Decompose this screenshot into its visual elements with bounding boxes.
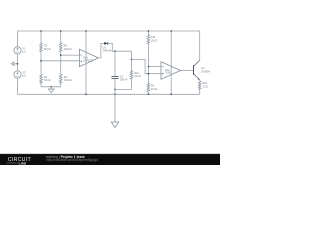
svg-text:LAB: LAB: [19, 161, 27, 165]
svg-text:1N4148: 1N4148: [103, 49, 112, 52]
resistor R3: [59, 43, 62, 53]
svg-text:100 Ω: 100 Ω: [134, 75, 141, 78]
wire to op-amp - input: [61, 54, 80, 56]
wire column3 top: [147, 31, 149, 35]
junction col3 bottom rail: [148, 94, 150, 96]
footer bar: [0, 154, 220, 165]
wire op-amp2 V+ stub: [170, 31, 172, 94]
svg-text:5 V: 5 V: [22, 75, 26, 78]
junction col3 plus cross: [148, 73, 150, 75]
junction divider ground: [50, 86, 52, 88]
wire left rail lower: [17, 78, 19, 94]
ground left: [11, 62, 17, 66]
junction col3 top rail: [148, 30, 150, 32]
wire column3 bottom: [147, 92, 149, 94]
wire diode cathode: [108, 43, 132, 51]
wire column1 bottom: [40, 83, 42, 87]
svg-text:http://circuitlab.com/c/58yr9m: http://circuitlab.com/c/58yr9mf3g4gd: [46, 158, 97, 162]
junction left ground tap: [17, 63, 19, 65]
resistor R4: [59, 74, 62, 83]
junction R12 top tap: [131, 59, 133, 61]
wire collector to top rail: [199, 31, 201, 60]
junction col1 top rail: [40, 30, 42, 32]
wire op-amp1 output: [98, 43, 104, 58]
wire to op-amp + input: [41, 60, 79, 62]
svg-text:5 V: 5 V: [22, 51, 26, 54]
svg-text:100 nF: 100 nF: [120, 79, 128, 82]
svg-text:OA2: OA2: [165, 69, 170, 72]
voltage source V1: [14, 47, 21, 54]
wire column1 top: [40, 31, 42, 43]
logo CircuitLab: [6, 157, 31, 165]
voltage source V2: [14, 71, 21, 78]
wire bottom rail: [18, 93, 200, 95]
junction OA2 V- bottom rail: [170, 94, 172, 96]
resistor R12: [130, 70, 133, 79]
resistor R14: [147, 35, 150, 44]
diode D1: [104, 42, 108, 45]
resistor R9: [147, 83, 150, 92]
resistor R2: [40, 74, 43, 83]
svg-text:50 kΩ: 50 kΩ: [44, 48, 51, 51]
svg-text:10 kΩ: 10 kΩ: [151, 88, 158, 91]
svg-text:100 Ω: 100 Ω: [151, 40, 158, 43]
op-amp OA2: [161, 62, 181, 79]
svg-text:LMP2231: LMP2231: [83, 60, 94, 62]
wire column2 mid: [60, 52, 62, 74]
wire to comparator - input: [148, 66, 161, 68]
wire diode node down: [131, 51, 133, 70]
wire column3 mid: [147, 44, 149, 83]
wire comparator + feed: [132, 59, 162, 73]
junction col1 tap: [40, 60, 42, 62]
wire emitter resistor to bottom rail: [199, 89, 201, 94]
junction C3 tap: [114, 50, 116, 52]
wire divider bottom connector: [41, 86, 61, 88]
junction ground stem bottom rail: [114, 94, 116, 96]
wire connector to R12: [115, 79, 132, 89]
wire emitter stub: [199, 80, 201, 81]
wire op-amp1 V+ stub: [85, 31, 87, 94]
transistor Q1: [194, 60, 200, 80]
junction C3-R12 connector: [114, 89, 116, 91]
wire left rail upper: [17, 31, 19, 47]
capacitor C3: [112, 76, 119, 78]
svg-text:100 kΩ: 100 kΩ: [64, 48, 72, 51]
wire C3 top stub: [114, 51, 116, 76]
svg-text:50 kΩ: 50 kΩ: [44, 79, 51, 82]
wire left rail mid: [17, 54, 19, 71]
junction col2 tap: [60, 54, 62, 56]
ground main: [111, 94, 118, 127]
wire column1 mid: [40, 52, 42, 74]
resistor R1: [40, 43, 43, 53]
op-amp OA1: [79, 49, 98, 66]
junction OA2 V+ top rail: [170, 30, 172, 32]
wire op-amp2 output to base: [181, 70, 194, 72]
svg-text:2N3904: 2N3904: [201, 70, 210, 73]
svg-text:100 kΩ: 100 kΩ: [64, 79, 72, 82]
junction OA1 V- bottom rail: [85, 94, 87, 96]
wire C3 bottom stub: [114, 79, 116, 95]
junction col3 minus tap: [148, 66, 150, 68]
resistor R10: [198, 81, 201, 89]
junction col2 top rail: [60, 30, 62, 32]
wire column2 bottom: [60, 83, 62, 87]
wire top rail: [18, 30, 200, 32]
ground divider: [48, 87, 54, 93]
wire column2 top: [60, 31, 62, 43]
svg-text:1 kΩ: 1 kΩ: [203, 86, 208, 89]
junction OA1 V+ top rail: [85, 30, 87, 32]
